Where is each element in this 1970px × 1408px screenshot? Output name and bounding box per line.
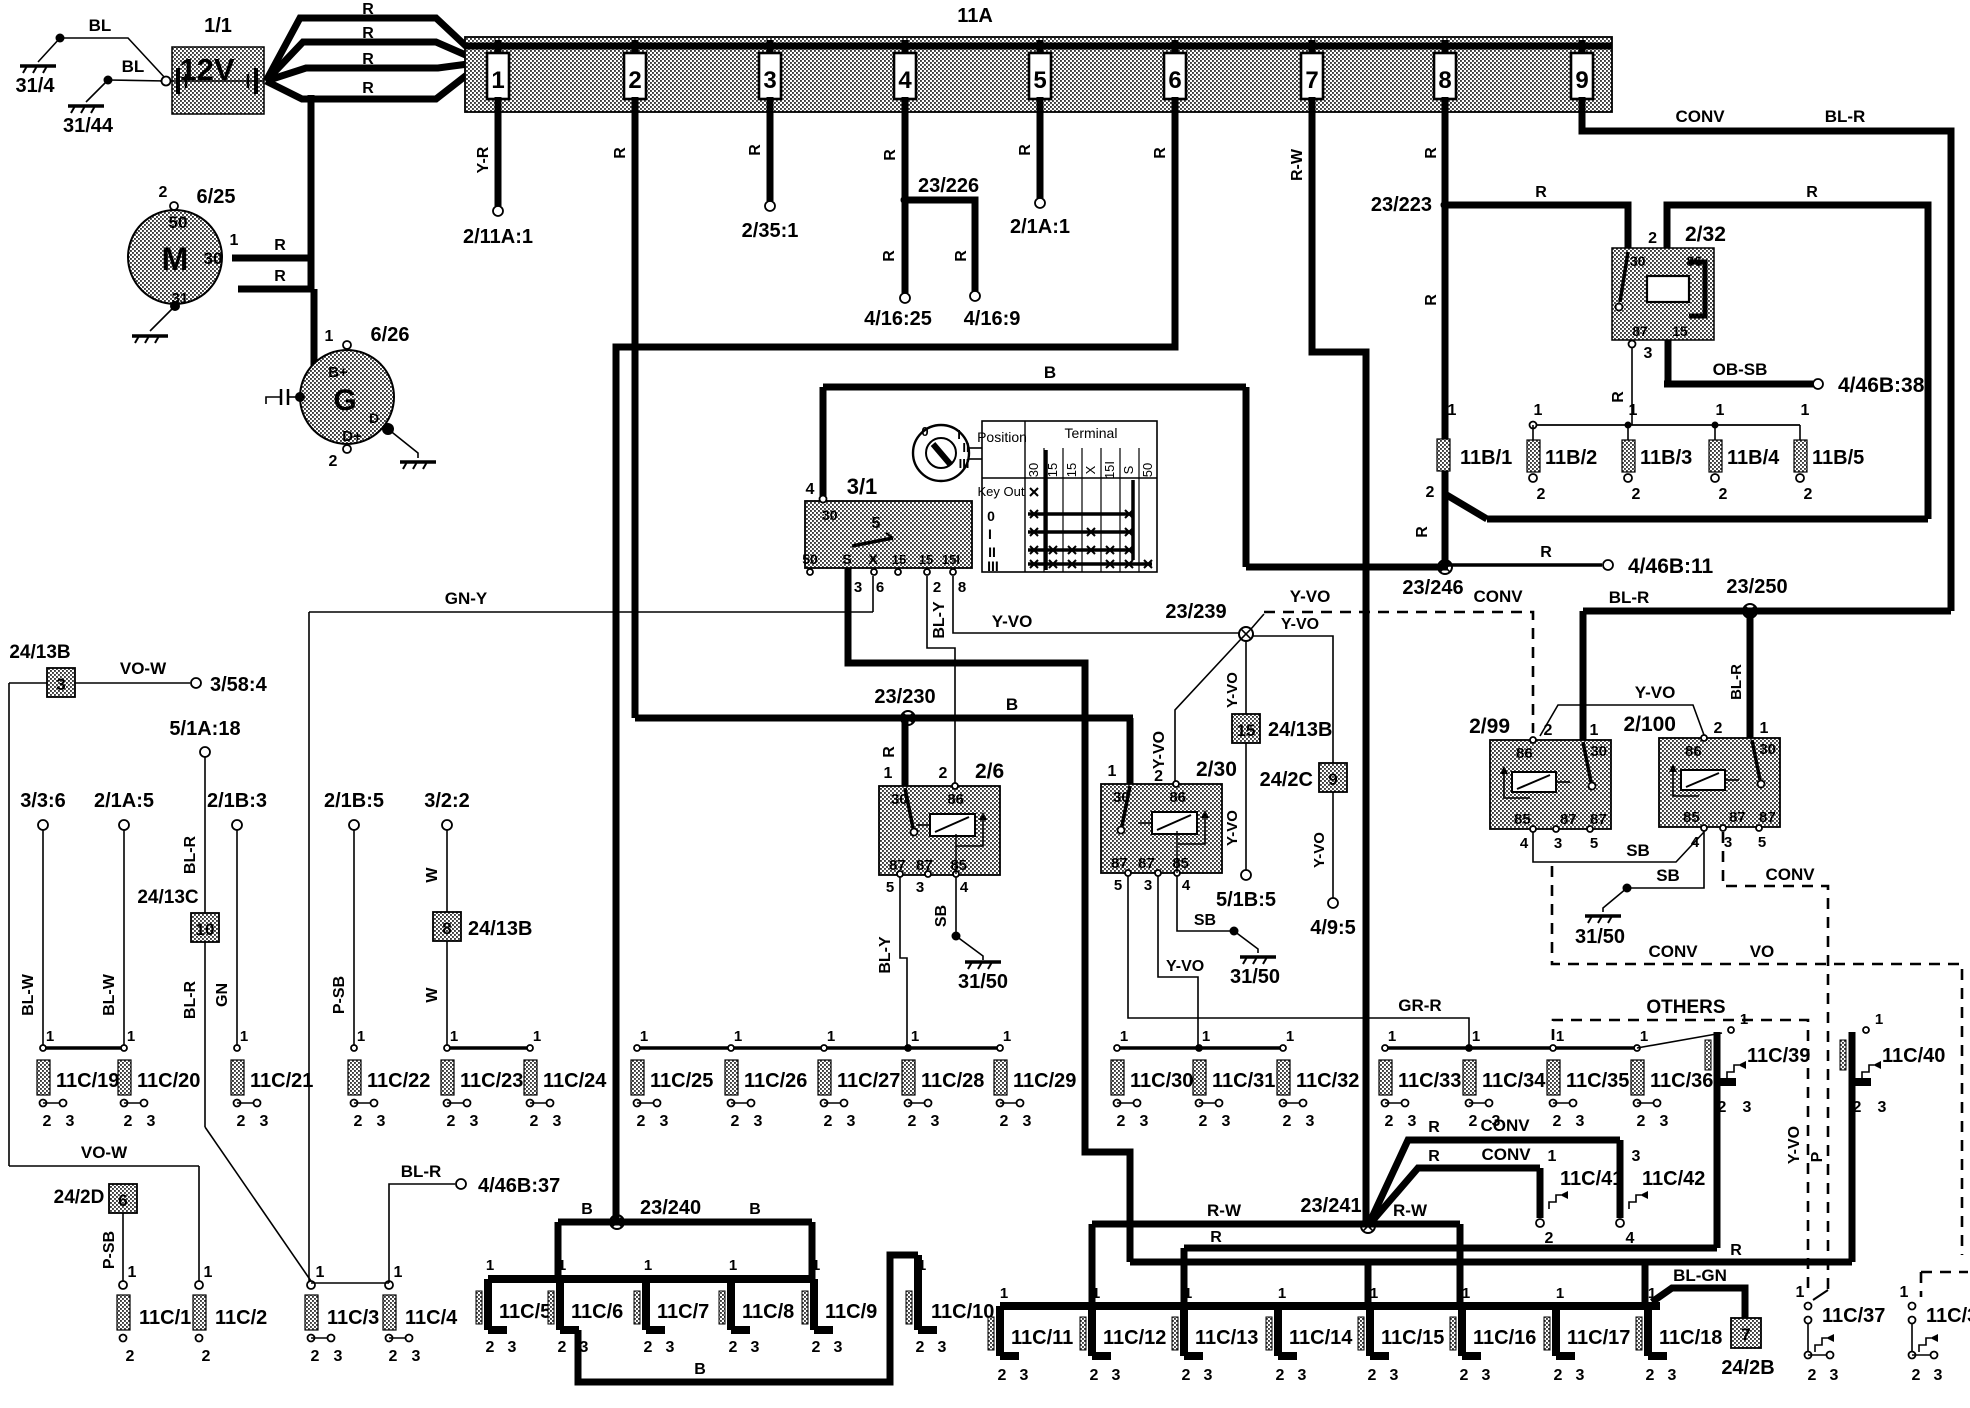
svg-text:4: 4	[1691, 834, 1700, 851]
svg-text:2: 2	[126, 1348, 135, 1365]
svg-text:X: X	[1083, 465, 1098, 474]
svg-text:1: 1	[640, 1028, 648, 1045]
svg-text:1: 1	[1286, 1028, 1294, 1045]
svg-text:24/13B: 24/13B	[468, 918, 533, 940]
svg-text:1: 1	[46, 1028, 54, 1045]
svg-text:3: 3	[1743, 1099, 1752, 1116]
svg-text:Y-VO: Y-VO	[1311, 832, 1328, 868]
svg-text:P: P	[1809, 1151, 1826, 1162]
svg-text:3/3:6: 3/3:6	[20, 790, 66, 812]
svg-text:5: 5	[872, 515, 881, 532]
svg-text:BL-R: BL-R	[401, 1162, 442, 1181]
svg-text:11C/14: 11C/14	[1289, 1327, 1353, 1349]
svg-text:2: 2	[998, 1367, 1007, 1384]
svg-text:3: 3	[553, 1113, 562, 1130]
svg-text:6: 6	[118, 1191, 127, 1210]
svg-text:B: B	[581, 1201, 593, 1218]
svg-text:2: 2	[1804, 486, 1813, 503]
svg-text:11C/17: 11C/17	[1567, 1327, 1630, 1349]
svg-text:87: 87	[1729, 809, 1746, 826]
svg-text:2: 2	[1632, 486, 1641, 503]
svg-text:2/1B:5: 2/1B:5	[324, 790, 384, 812]
svg-text:30: 30	[822, 507, 838, 523]
svg-text:1: 1	[827, 1028, 835, 1045]
svg-text:11C/2: 11C/2	[215, 1307, 267, 1329]
svg-text:3: 3	[1644, 345, 1653, 362]
svg-text:7: 7	[1741, 1325, 1750, 1344]
svg-text:1: 1	[533, 1028, 541, 1045]
svg-text:1: 1	[1184, 1285, 1192, 1302]
svg-text:1: 1	[1472, 1028, 1480, 1045]
svg-text:3: 3	[834, 1339, 843, 1356]
svg-text:1: 1	[325, 328, 334, 345]
svg-text:R: R	[1535, 184, 1547, 201]
svg-text:3: 3	[1023, 1113, 1032, 1130]
svg-text:24/13B: 24/13B	[1268, 719, 1333, 741]
svg-text:W: W	[424, 987, 441, 1003]
svg-text:11C/7: 11C/7	[657, 1301, 709, 1323]
svg-text:1: 1	[1388, 1028, 1396, 1045]
svg-text:3: 3	[1830, 1367, 1839, 1384]
svg-text:23/230: 23/230	[874, 686, 935, 708]
svg-text:3: 3	[1576, 1367, 1585, 1384]
svg-text:2: 2	[202, 1348, 211, 1365]
svg-text:2: 2	[237, 1113, 246, 1130]
svg-text:31/50: 31/50	[1230, 966, 1280, 988]
svg-text:11C/40: 11C/40	[1882, 1045, 1945, 1067]
svg-text:3: 3	[377, 1113, 386, 1130]
svg-text:2: 2	[1637, 1113, 1646, 1130]
svg-text:2: 2	[1544, 722, 1553, 739]
svg-text:III: III	[987, 558, 999, 574]
svg-text:5: 5	[1758, 834, 1766, 851]
svg-text:11C/33: 11C/33	[1398, 1070, 1461, 1092]
svg-text:1: 1	[1556, 1028, 1564, 1045]
svg-text:R-W: R-W	[1207, 1201, 1242, 1220]
svg-text:VO-W: VO-W	[81, 1143, 128, 1162]
svg-text:2: 2	[916, 1339, 925, 1356]
svg-text:2: 2	[389, 1348, 398, 1365]
svg-text:23/240: 23/240	[640, 1197, 701, 1219]
svg-text:OB-SB: OB-SB	[1713, 360, 1768, 379]
svg-text:23/241: 23/241	[1300, 1195, 1361, 1217]
svg-text:CONV: CONV	[1481, 1145, 1531, 1164]
svg-text:30: 30	[1026, 463, 1041, 477]
svg-text:11C/15: 11C/15	[1381, 1327, 1444, 1349]
svg-text:3: 3	[470, 1113, 479, 1130]
svg-text:2: 2	[637, 1113, 646, 1130]
svg-text:11C/30: 11C/30	[1130, 1070, 1193, 1092]
svg-text:0: 0	[921, 424, 928, 439]
svg-text:R: R	[953, 250, 970, 262]
svg-text:12V: 12V	[179, 52, 234, 87]
svg-text:3/1: 3/1	[847, 474, 878, 499]
svg-text:31/4: 31/4	[16, 75, 56, 97]
svg-text:BL-Y: BL-Y	[877, 936, 894, 974]
svg-text:15: 15	[1064, 463, 1079, 477]
svg-text:24/13C: 24/13C	[137, 887, 199, 908]
svg-text:6: 6	[876, 579, 884, 596]
svg-text:II: II	[962, 440, 969, 455]
svg-text:31/50: 31/50	[1575, 926, 1625, 948]
svg-text:GN: GN	[214, 983, 231, 1007]
svg-text:3: 3	[147, 1113, 156, 1130]
svg-text:2/100: 2/100	[1623, 713, 1676, 736]
svg-text:1: 1	[204, 1264, 213, 1281]
svg-text:2: 2	[644, 1339, 653, 1356]
svg-text:24/2B: 24/2B	[1721, 1357, 1774, 1379]
svg-text:30: 30	[1630, 253, 1646, 269]
svg-text:86: 86	[1516, 745, 1533, 762]
svg-text:B+: B+	[328, 364, 348, 381]
svg-text:BL-R: BL-R	[1825, 107, 1866, 126]
svg-text:1: 1	[918, 1257, 926, 1274]
svg-text:3: 3	[1408, 1113, 1417, 1130]
svg-text:50: 50	[169, 213, 188, 232]
svg-text:4: 4	[1626, 1230, 1635, 1247]
svg-text:87: 87	[1590, 811, 1607, 828]
svg-text:2: 2	[1385, 1113, 1394, 1130]
svg-text:11A: 11A	[957, 5, 993, 27]
svg-text:1: 1	[127, 1028, 135, 1045]
svg-text:BL-R: BL-R	[1728, 664, 1745, 700]
svg-text:2: 2	[486, 1339, 495, 1356]
svg-text:11C/4: 11C/4	[405, 1307, 458, 1329]
svg-text:2: 2	[1719, 486, 1728, 503]
svg-text:11B/2: 11B/2	[1545, 447, 1597, 469]
svg-text:3/58:4: 3/58:4	[210, 674, 268, 696]
svg-text:11C/8: 11C/8	[742, 1301, 794, 1323]
svg-text:BL-W: BL-W	[101, 973, 118, 1016]
svg-text:2: 2	[354, 1113, 363, 1130]
svg-text:6/25: 6/25	[197, 186, 236, 208]
svg-text:24/2C: 24/2C	[1260, 769, 1313, 791]
svg-text:1: 1	[450, 1028, 458, 1045]
svg-text:2: 2	[447, 1113, 456, 1130]
svg-text:1: 1	[230, 232, 239, 249]
svg-text:4: 4	[1520, 835, 1529, 852]
svg-text:86: 86	[1169, 789, 1186, 806]
svg-text:87: 87	[1759, 809, 1776, 826]
svg-text:R: R	[747, 144, 764, 156]
svg-text:Y-VO: Y-VO	[1224, 810, 1241, 846]
svg-text:2: 2	[1853, 1099, 1862, 1116]
svg-text:Position: Position	[977, 429, 1027, 445]
svg-text:R: R	[1423, 147, 1440, 159]
svg-text:Y-VO: Y-VO	[1786, 1126, 1803, 1164]
svg-text:2: 2	[731, 1113, 740, 1130]
svg-text:2: 2	[1182, 1367, 1191, 1384]
svg-text:2: 2	[530, 1113, 539, 1130]
svg-text:R: R	[1423, 294, 1440, 306]
svg-text:2: 2	[329, 453, 338, 470]
svg-text:11B/4: 11B/4	[1727, 447, 1780, 469]
svg-text:B: B	[749, 1201, 761, 1218]
svg-text:R: R	[1730, 1242, 1742, 1259]
svg-text:2: 2	[1646, 1367, 1655, 1384]
svg-text:I: I	[957, 427, 961, 442]
svg-text:2: 2	[1469, 1113, 1478, 1130]
svg-text:CONV: CONV	[1648, 942, 1698, 961]
svg-text:2/32: 2/32	[1685, 223, 1726, 246]
svg-text:4: 4	[898, 67, 912, 94]
svg-text:11C/36: 11C/36	[1650, 1070, 1713, 1092]
svg-text:3: 3	[1140, 1113, 1149, 1130]
svg-text:3: 3	[1306, 1113, 1315, 1130]
svg-text:3: 3	[1112, 1367, 1121, 1384]
svg-text:B: B	[1006, 695, 1018, 714]
svg-text:2/35:1: 2/35:1	[742, 220, 799, 242]
svg-text:3: 3	[1222, 1113, 1231, 1130]
svg-text:GR-R: GR-R	[1398, 996, 1441, 1015]
svg-text:BL-GN: BL-GN	[1673, 1266, 1727, 1285]
svg-text:7: 7	[1305, 67, 1318, 94]
svg-text:5/1A:18: 5/1A:18	[169, 718, 240, 740]
svg-text:11C/23: 11C/23	[460, 1070, 523, 1092]
svg-text:I: I	[988, 526, 992, 542]
svg-text:2: 2	[1718, 1099, 1727, 1116]
svg-text:50: 50	[802, 551, 818, 567]
svg-text:3: 3	[334, 1348, 343, 1365]
svg-text:III: III	[959, 456, 970, 471]
svg-text:R: R	[1414, 526, 1431, 538]
svg-text:3: 3	[412, 1348, 421, 1365]
svg-text:R: R	[1540, 544, 1552, 561]
svg-text:D: D	[369, 410, 379, 426]
svg-text:BL: BL	[89, 16, 112, 35]
svg-text:2/1A:1: 2/1A:1	[1010, 216, 1070, 238]
svg-text:4/46B:11: 4/46B:11	[1628, 555, 1714, 578]
svg-text:Y-R: Y-R	[475, 146, 492, 173]
svg-text:1: 1	[1202, 1028, 1210, 1045]
svg-text:11C/39: 11C/39	[1747, 1045, 1810, 1067]
svg-text:11C/32: 11C/32	[1296, 1070, 1359, 1092]
svg-text:1: 1	[394, 1264, 403, 1281]
svg-text:3: 3	[1632, 1148, 1641, 1165]
svg-text:11C/29: 11C/29	[1013, 1070, 1076, 1092]
svg-text:2: 2	[1460, 1367, 1469, 1384]
svg-text:30: 30	[1590, 743, 1607, 760]
svg-text:3: 3	[847, 1113, 856, 1130]
svg-text:11C/35: 11C/35	[1566, 1070, 1629, 1092]
svg-text:2: 2	[1199, 1113, 1208, 1130]
svg-text:2: 2	[1648, 230, 1657, 247]
svg-text:5: 5	[1590, 835, 1598, 852]
svg-text:2: 2	[1912, 1367, 1921, 1384]
svg-text:2: 2	[824, 1113, 833, 1130]
svg-text:8: 8	[1438, 67, 1451, 94]
svg-text:15: 15	[919, 552, 933, 567]
svg-text:X: X	[868, 551, 878, 567]
svg-text:2: 2	[43, 1113, 52, 1130]
svg-text:3: 3	[1204, 1367, 1213, 1384]
svg-text:2: 2	[1426, 484, 1435, 501]
svg-text:R: R	[1806, 184, 1818, 201]
svg-text:4: 4	[806, 481, 815, 498]
svg-text:5: 5	[1114, 877, 1122, 894]
svg-text:1: 1	[734, 1028, 742, 1045]
svg-text:BL-W: BL-W	[20, 973, 37, 1016]
svg-text:23/239: 23/239	[1165, 601, 1226, 623]
svg-text:2: 2	[729, 1339, 738, 1356]
svg-text:11C/38: 11C/38	[1926, 1305, 1970, 1327]
svg-text:3: 3	[931, 1113, 940, 1130]
svg-text:W: W	[424, 867, 441, 883]
svg-text:CONV: CONV	[1473, 587, 1523, 606]
svg-text:3: 3	[1020, 1367, 1029, 1384]
svg-text:5: 5	[1033, 67, 1046, 94]
svg-text:3: 3	[1298, 1367, 1307, 1384]
svg-text:3/2:2: 3/2:2	[424, 790, 470, 812]
svg-text:3: 3	[754, 1113, 763, 1130]
svg-text:P-SB: P-SB	[331, 976, 348, 1014]
svg-text:1: 1	[316, 1264, 325, 1281]
svg-text:23/246: 23/246	[1402, 577, 1463, 599]
svg-text:31/50: 31/50	[958, 971, 1008, 993]
svg-text:SB: SB	[1626, 841, 1650, 860]
svg-text:11C/31: 11C/31	[1212, 1070, 1275, 1092]
svg-text:1: 1	[1462, 1285, 1470, 1302]
svg-text:23/226: 23/226	[918, 175, 979, 197]
svg-text:11C/9: 11C/9	[825, 1301, 877, 1323]
svg-text:11C/3: 11C/3	[327, 1307, 379, 1329]
svg-text:3: 3	[1878, 1099, 1887, 1116]
svg-text:3: 3	[66, 1113, 75, 1130]
svg-text:OTHERS: OTHERS	[1646, 997, 1725, 1018]
svg-text:2: 2	[1714, 720, 1723, 737]
svg-text:24/2D: 24/2D	[54, 1187, 105, 1208]
svg-text:1: 1	[1629, 402, 1638, 419]
svg-text:2/6: 2/6	[975, 760, 1004, 783]
svg-text:11C/37: 11C/37	[1822, 1305, 1885, 1327]
svg-text:R: R	[1428, 1148, 1440, 1165]
svg-text:3: 3	[1576, 1113, 1585, 1130]
svg-text:11C/12: 11C/12	[1103, 1327, 1166, 1349]
svg-text:23/250: 23/250	[1726, 576, 1787, 598]
svg-text:1: 1	[1548, 1148, 1557, 1165]
svg-text:3: 3	[1660, 1113, 1669, 1130]
svg-text:2: 2	[628, 67, 641, 94]
svg-text:2: 2	[1553, 1113, 1562, 1130]
svg-text:2: 2	[124, 1113, 133, 1130]
svg-text:2: 2	[311, 1348, 320, 1365]
svg-text:9: 9	[1575, 67, 1588, 94]
svg-text:B: B	[694, 1361, 706, 1378]
svg-text:11C/19: 11C/19	[56, 1070, 119, 1092]
svg-text:2: 2	[1545, 1230, 1554, 1247]
svg-text:2: 2	[1090, 1367, 1099, 1384]
svg-text:3: 3	[260, 1113, 269, 1130]
svg-text:1: 1	[1556, 1285, 1564, 1302]
svg-text:1: 1	[1760, 720, 1769, 737]
svg-text:1: 1	[240, 1028, 248, 1045]
svg-text:1: 1	[1875, 1011, 1883, 1028]
svg-text:2/11A:1: 2/11A:1	[463, 226, 533, 248]
svg-text:Y-VO: Y-VO	[1281, 616, 1319, 633]
svg-text:2: 2	[1283, 1113, 1292, 1130]
svg-text:30: 30	[204, 249, 223, 268]
svg-text:8: 8	[958, 579, 966, 596]
svg-text:2: 2	[1554, 1367, 1563, 1384]
svg-text:BL-R: BL-R	[182, 980, 199, 1019]
svg-text:BL-R: BL-R	[182, 835, 199, 874]
svg-text:11C/42: 11C/42	[1642, 1168, 1705, 1190]
svg-text:2/30: 2/30	[1196, 758, 1237, 781]
svg-text:3: 3	[1144, 877, 1152, 894]
svg-text:11C/34: 11C/34	[1482, 1070, 1546, 1092]
svg-text:3: 3	[56, 675, 65, 694]
svg-text:G: G	[333, 384, 356, 417]
svg-text:11C/6: 11C/6	[571, 1301, 623, 1323]
svg-text:11C/24: 11C/24	[543, 1070, 607, 1092]
svg-text:2: 2	[1154, 768, 1163, 785]
svg-text:D+: D+	[342, 428, 362, 445]
svg-text:3: 3	[938, 1339, 947, 1356]
svg-text:15: 15	[1237, 721, 1256, 740]
svg-text:R-W: R-W	[1289, 148, 1306, 181]
svg-text:4/16:25: 4/16:25	[864, 308, 932, 330]
svg-text:2: 2	[1808, 1367, 1817, 1384]
svg-text:87: 87	[1560, 811, 1577, 828]
svg-text:11C/1: 11C/1	[139, 1307, 191, 1329]
svg-text:1: 1	[486, 1257, 494, 1274]
svg-text:9: 9	[1328, 770, 1337, 789]
svg-text:11C/25: 11C/25	[650, 1070, 713, 1092]
svg-text:R: R	[1428, 1119, 1440, 1136]
svg-text:11C/22: 11C/22	[367, 1070, 430, 1092]
svg-text:1: 1	[729, 1257, 737, 1274]
svg-text:GN-Y: GN-Y	[445, 589, 488, 608]
svg-text:3: 3	[508, 1339, 517, 1356]
svg-text:1: 1	[1278, 1285, 1286, 1302]
svg-text:1/1: 1/1	[204, 15, 232, 37]
svg-text:85: 85	[1514, 811, 1531, 828]
svg-text:R: R	[362, 80, 374, 97]
svg-text:15: 15	[1672, 323, 1688, 339]
svg-text:3: 3	[1390, 1367, 1399, 1384]
svg-text:1: 1	[812, 1257, 820, 1274]
svg-text:1: 1	[1640, 1028, 1648, 1045]
svg-text:86: 86	[1685, 743, 1702, 760]
svg-text:1: 1	[1740, 1011, 1748, 1028]
svg-text:R: R	[274, 237, 286, 254]
svg-text:85: 85	[1683, 809, 1700, 826]
svg-text:1: 1	[1801, 402, 1810, 419]
svg-text:SB: SB	[933, 905, 950, 927]
svg-text:R: R	[274, 268, 286, 285]
svg-text:VO-W: VO-W	[120, 659, 167, 678]
svg-text:15I: 15I	[1102, 461, 1117, 479]
svg-text:R: R	[1017, 144, 1034, 156]
svg-text:CONV: CONV	[1480, 1116, 1530, 1135]
svg-text:CONV: CONV	[1675, 107, 1725, 126]
svg-text:11C/10: 11C/10	[931, 1301, 994, 1323]
svg-text:R: R	[1210, 1229, 1222, 1246]
svg-text:11C/11: 11C/11	[1011, 1327, 1073, 1349]
svg-text:1: 1	[1590, 722, 1599, 739]
svg-text:11C/27: 11C/27	[837, 1070, 900, 1092]
svg-text:30: 30	[1759, 741, 1776, 758]
svg-text:R: R	[1610, 391, 1627, 403]
svg-text:R: R	[882, 149, 899, 161]
svg-text:SB: SB	[1194, 912, 1216, 929]
svg-text:11C/13: 11C/13	[1195, 1327, 1258, 1349]
svg-text:6: 6	[1168, 67, 1181, 94]
svg-text:15I: 15I	[942, 552, 960, 567]
svg-text:11B/1: 11B/1	[1460, 447, 1512, 469]
svg-text:R: R	[362, 1, 374, 18]
svg-text:4: 4	[1182, 877, 1191, 894]
